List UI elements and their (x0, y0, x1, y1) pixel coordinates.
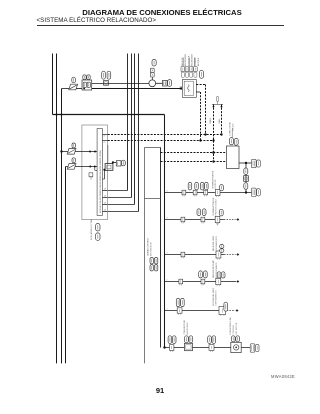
svg-text:DEL MOTOR: DEL MOTOR (236, 322, 238, 334)
svg-text:ENLACE: ENLACE (231, 123, 234, 131)
svg-text:ENCENDIDO: ENCENDIDO (185, 54, 187, 66)
svg-text:CONTROL: CONTROL (233, 324, 235, 335)
svg-text:SENSOR DE TEMP: SENSOR DE TEMP (213, 259, 215, 278)
svg-text:1: 1 (167, 308, 168, 310)
svg-text:FUSIBLE: FUSIBLE (195, 57, 197, 66)
svg-text:3: 3 (167, 252, 168, 254)
svg-text:ENFRIAMIENTO: ENFRIAMIENTO (215, 290, 218, 306)
svg-text:DEL MEDIDOR: DEL MEDIDOR (150, 242, 152, 256)
svg-text:REFRIGERANTE: REFRIGERANTE (215, 262, 218, 278)
svg-text:INTERRUP: INTERRUP (188, 55, 190, 66)
svg-text:RELE DE: RELE DE (182, 57, 184, 66)
svg-text:2: 2 (167, 279, 168, 281)
svg-text:48: 48 (104, 203, 106, 205)
svg-text:BLOQUE: BLOQUE (198, 57, 200, 66)
svg-text:UNIDAD CONTROL: UNIDAD CONTROL (147, 237, 150, 256)
svg-text:ENCENDIDO: ENCENDIDO (192, 54, 194, 66)
svg-text:INTERRUPTOR DE: INTERRUPTOR DE (212, 170, 214, 188)
svg-text:ENFRIAMIENTO: ENFRIAMIENTO (215, 235, 218, 251)
svg-text:CAN-H: CAN-H (209, 117, 212, 124)
svg-text:NIVEL DE: NIVEL DE (215, 179, 217, 189)
svg-text:39: 39 (103, 136, 105, 138)
svg-text:RELE DEL VENT: RELE DEL VENT (213, 235, 215, 251)
svg-text:MOTOR DEL VENT: MOTOR DEL VENT (213, 287, 215, 305)
svg-text:4: 4 (167, 217, 168, 219)
svg-text:BCM (MODULO CTRL): BCM (MODULO CTRL) (91, 219, 93, 240)
svg-text:CAN-L: CAN-L (218, 118, 221, 124)
svg-text:PRESION DOBLE: PRESION DOBLE (216, 198, 218, 215)
svg-text:40: 40 (103, 142, 105, 144)
svg-text:6: 6 (167, 190, 168, 192)
svg-text:INTERRUPTOR DE: INTERRUPTOR DE (213, 197, 215, 215)
svg-text:CONECTOR DE: CONECTOR DE (229, 121, 231, 136)
svg-text:48: 48 (104, 189, 106, 191)
svg-text:MODULO DE DISTRIBUCION DE ENER: MODULO DE DISTRIBUCION DE ENERGIA INTELI… (99, 150, 102, 213)
svg-text:CONJUNTO DE: CONJUNTO DE (184, 319, 186, 334)
svg-text:48: 48 (104, 196, 106, 198)
svg-text:ECM MODULO DE: ECM MODULO DE (230, 317, 232, 335)
svg-text:MEDIDORES: MEDIDORES (187, 322, 189, 335)
svg-text:48: 48 (104, 210, 106, 212)
